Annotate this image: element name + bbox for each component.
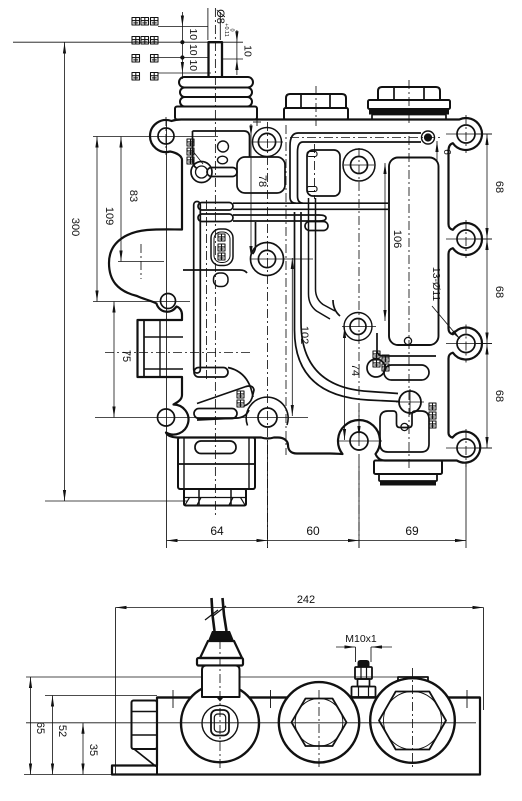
svg-text:52: 52 (56, 725, 68, 737)
block BL nut lines (198, 489, 200, 506)
bv dim 242 (116, 607, 484, 609)
channel V1 (194, 202, 201, 374)
mid plug hex (286, 94, 346, 108)
pocket P2 circle (401, 423, 408, 430)
right plug base (372, 115, 446, 120)
tab inner lines (143, 320, 145, 377)
channel A capsule (198, 203, 233, 211)
hole T2 (258, 133, 275, 150)
bv circle2 hex (292, 699, 347, 747)
right hole centerline y448 (446, 447, 492, 449)
block BL outer (178, 438, 255, 490)
small capsule below (214, 273, 229, 287)
bv bottom ext line (24, 774, 112, 776)
hole B3 (350, 432, 368, 450)
hole BR (457, 439, 475, 457)
svg-text:68: 68 (493, 286, 505, 298)
small hole right (404, 337, 411, 344)
chain arrows (181, 16, 184, 27)
svg-text:102: 102 (298, 326, 310, 344)
svg-text:64: 64 (210, 524, 224, 538)
dim 300 (64, 43, 66, 502)
hole T2 centerline (267, 122, 269, 548)
fitting neck (358, 679, 370, 687)
svg-text:10: 10 (187, 44, 199, 56)
gear label row 1 (132, 18, 140, 26)
disc 3 (180, 97, 252, 107)
mid plug hex lines (300, 94, 302, 108)
svg-text:74: 74 (349, 364, 361, 376)
bv centerline c2 (318, 690, 320, 768)
bv centerline c1 (219, 640, 221, 770)
svg-text:60: 60 (306, 524, 320, 538)
channel V1 foot curve (228, 368, 253, 398)
svg-text:69: 69 (405, 524, 419, 538)
bv circle1 ring (202, 705, 238, 741)
right plug band (369, 109, 449, 115)
hole BL (158, 409, 175, 426)
dim 74 (344, 327, 346, 440)
bv circle3 inscribed (384, 692, 442, 750)
dim dia8 ext (207, 8, 209, 40)
gear label row 4 (132, 73, 140, 81)
channel B extra capsule (305, 222, 328, 231)
dim 68 ext lines (476, 133, 492, 135)
dim 68-1 (485, 134, 488, 145)
svg-text:106: 106 (391, 230, 403, 248)
bv foot (112, 766, 157, 775)
body outline (top view) (109, 118, 482, 463)
bv dim 52 (52, 696, 54, 775)
center bore centerline (285, 125, 287, 455)
fitting flange (352, 687, 376, 698)
hole ticks (252, 141, 283, 143)
disc 2 (180, 88, 252, 98)
bv diagonal (134, 749, 156, 767)
pocket R1 (389, 158, 439, 346)
bv edge ticks (172, 690, 174, 708)
circle D cross (396, 401, 424, 403)
mid plug centerline (315, 86, 317, 126)
top slot end dot (422, 131, 435, 144)
small hole left (161, 294, 176, 309)
hole R3 (457, 335, 475, 353)
bv centerline c3 (412, 668, 414, 768)
bv connector body (202, 666, 240, 698)
dim 68-3 (485, 344, 488, 355)
bv circle2 outer (279, 682, 359, 762)
svg-text:10: 10 (187, 59, 199, 71)
circle E slot (384, 365, 429, 380)
bulge cross (118, 261, 164, 263)
hole C2 (258, 250, 275, 267)
bv centerline horizontal (26, 722, 476, 724)
bv circle1 outer (181, 684, 259, 762)
channel center outer (309, 198, 331, 319)
chain dim line (181, 12, 183, 79)
channel center inner (316, 198, 336, 311)
hole B3 centerline (338, 440, 382, 442)
disc 1 (179, 77, 253, 88)
fitting hex (355, 667, 372, 679)
svg-text:75: 75 (120, 350, 132, 362)
dim 109 (96, 137, 98, 302)
right hole centerline y239 (446, 238, 492, 240)
dim 68-2 (485, 239, 488, 250)
dim 10 right (236, 30, 238, 75)
gear label row 2 (132, 37, 140, 45)
svg-text:6: 6 (441, 149, 452, 155)
stem centerline (214, 8, 216, 518)
triangle pointer (197, 386, 254, 406)
pocket R1 centerline (408, 136, 410, 470)
svg-text:242: 242 (297, 594, 315, 606)
circle D (399, 391, 421, 413)
dim 6 (436, 141, 438, 161)
dim 83 (120, 137, 122, 262)
base plate (175, 107, 257, 120)
dim bottom exts (166, 120, 168, 548)
hole B2 boss arcs (246, 397, 288, 425)
label upper-left glyphs (187, 139, 194, 146)
dim 69 (359, 540, 466, 542)
block BL midline (178, 463, 255, 465)
svg-text:65: 65 (34, 722, 46, 734)
pocket P1b (307, 150, 340, 196)
bv connector trapezoid (200, 641, 242, 658)
dim 102 (291, 258, 293, 416)
svg-text:Ø8: Ø8 (214, 9, 226, 24)
mid plug flange (284, 108, 348, 120)
svg-text:13-Ø11: 13-Ø11 (430, 267, 442, 301)
hole C3 pocket contour (377, 333, 436, 356)
fitting cap (358, 660, 370, 667)
bv dim 35 (82, 723, 84, 775)
block BL lower (184, 489, 246, 506)
hole R2 (457, 230, 475, 248)
right plug hex (378, 87, 440, 100)
right plug centerline (408, 80, 410, 126)
svg-text:109: 109 (103, 207, 115, 225)
right plug hex lines (393, 87, 395, 100)
hole TL centerlines (93, 136, 218, 138)
bottom holes centerline (95, 417, 308, 419)
dim 106 (384, 163, 386, 321)
block BR band (380, 481, 436, 486)
svg-text:10: 10 (242, 45, 254, 57)
svg-text:+0.11: +0.11 (223, 23, 229, 37)
bv circle1 diamond (217, 695, 223, 702)
small circle a (218, 141, 229, 152)
keyhole slot (207, 168, 237, 177)
label capsule (211, 229, 233, 266)
pocket P1a (237, 157, 285, 193)
bv circle1 rrect (211, 710, 229, 736)
label circleD glyphs (429, 403, 436, 410)
plus mark (253, 121, 261, 123)
bv connector cap (208, 631, 234, 641)
bv hex block (132, 701, 158, 750)
channel V1 centerline (206, 200, 208, 380)
hole TL (158, 128, 174, 144)
channel B capsule (198, 214, 233, 222)
svg-text:68: 68 (493, 390, 505, 402)
bv dim 242 exts (115, 608, 117, 776)
bv dim 65 (30, 677, 32, 775)
circle E (367, 359, 385, 377)
block BR upper (374, 461, 442, 475)
hole C2 pocket lines (253, 222, 256, 254)
right hole centerline y343.5 (446, 343, 492, 345)
bv connector flange (197, 658, 243, 666)
hole TR (457, 125, 475, 143)
bv circle2 inscribed (295, 699, 343, 747)
bv top edge (157, 696, 480, 698)
dim 75 (113, 302, 115, 418)
hole C3 (350, 319, 366, 335)
small oval b (218, 156, 228, 164)
svg-text:10: 10 (187, 28, 199, 40)
svg-text:M10x1: M10x1 (345, 633, 377, 645)
top slot centerline (290, 137, 443, 139)
bv circle3 outer (370, 678, 455, 763)
bv wires (212, 598, 227, 631)
dim 78 (250, 124, 252, 257)
stem tube (209, 42, 223, 78)
hole TH3 centerline (358, 148, 360, 548)
pocket P1b centerline (314, 144, 316, 199)
block BR mid (379, 474, 437, 481)
channel A lines (233, 203, 388, 209)
right plug flange (368, 100, 450, 109)
tab centerline (105, 352, 252, 354)
block BL inner verticals (183, 438, 185, 490)
small hole left centerline (93, 301, 190, 303)
dim 300 ext bottom (45, 500, 188, 502)
bv circle3 hex (379, 692, 446, 750)
channel V1 foot (194, 368, 228, 378)
label triangle glyphs (237, 391, 244, 398)
bv 52 ref line (45, 695, 157, 697)
top slot (298, 133, 421, 142)
triangle slot (194, 409, 237, 419)
upper-left pocket outline (193, 131, 250, 168)
gear label row 3 (132, 55, 140, 63)
svg-text:83: 83 (127, 190, 139, 202)
block BL slot (195, 441, 236, 454)
dim 74 extra arrow (357, 426, 360, 437)
svg-text:35: 35 (87, 744, 99, 756)
bv 65 ref line (26, 676, 398, 678)
bv circle3 tab (398, 677, 428, 687)
dim 64 (167, 540, 268, 542)
hole TH3 (351, 157, 368, 174)
pocket P1b tabs (307, 152, 317, 157)
label capsule glyphs (218, 234, 225, 241)
dim 60 (268, 540, 360, 542)
svg-text:78: 78 (256, 175, 268, 187)
right hole centerline y134 (446, 133, 492, 135)
keyhole circle (191, 162, 212, 183)
channel from slot (290, 133, 303, 152)
channel B lines (233, 215, 326, 221)
label circleE glyphs (373, 351, 380, 358)
hole B2 (258, 408, 277, 427)
bv hex block lines (132, 711, 158, 713)
svg-text:0: 0 (229, 28, 235, 31)
channel arcs to circle D (295, 212, 400, 402)
svg-text:300: 300 (69, 218, 81, 236)
dim 68 line (486, 134, 488, 448)
pocket P2 (380, 411, 429, 452)
chain leaders (158, 26, 208, 28)
bv body (112, 698, 480, 775)
svg-text:68: 68 (493, 181, 505, 193)
